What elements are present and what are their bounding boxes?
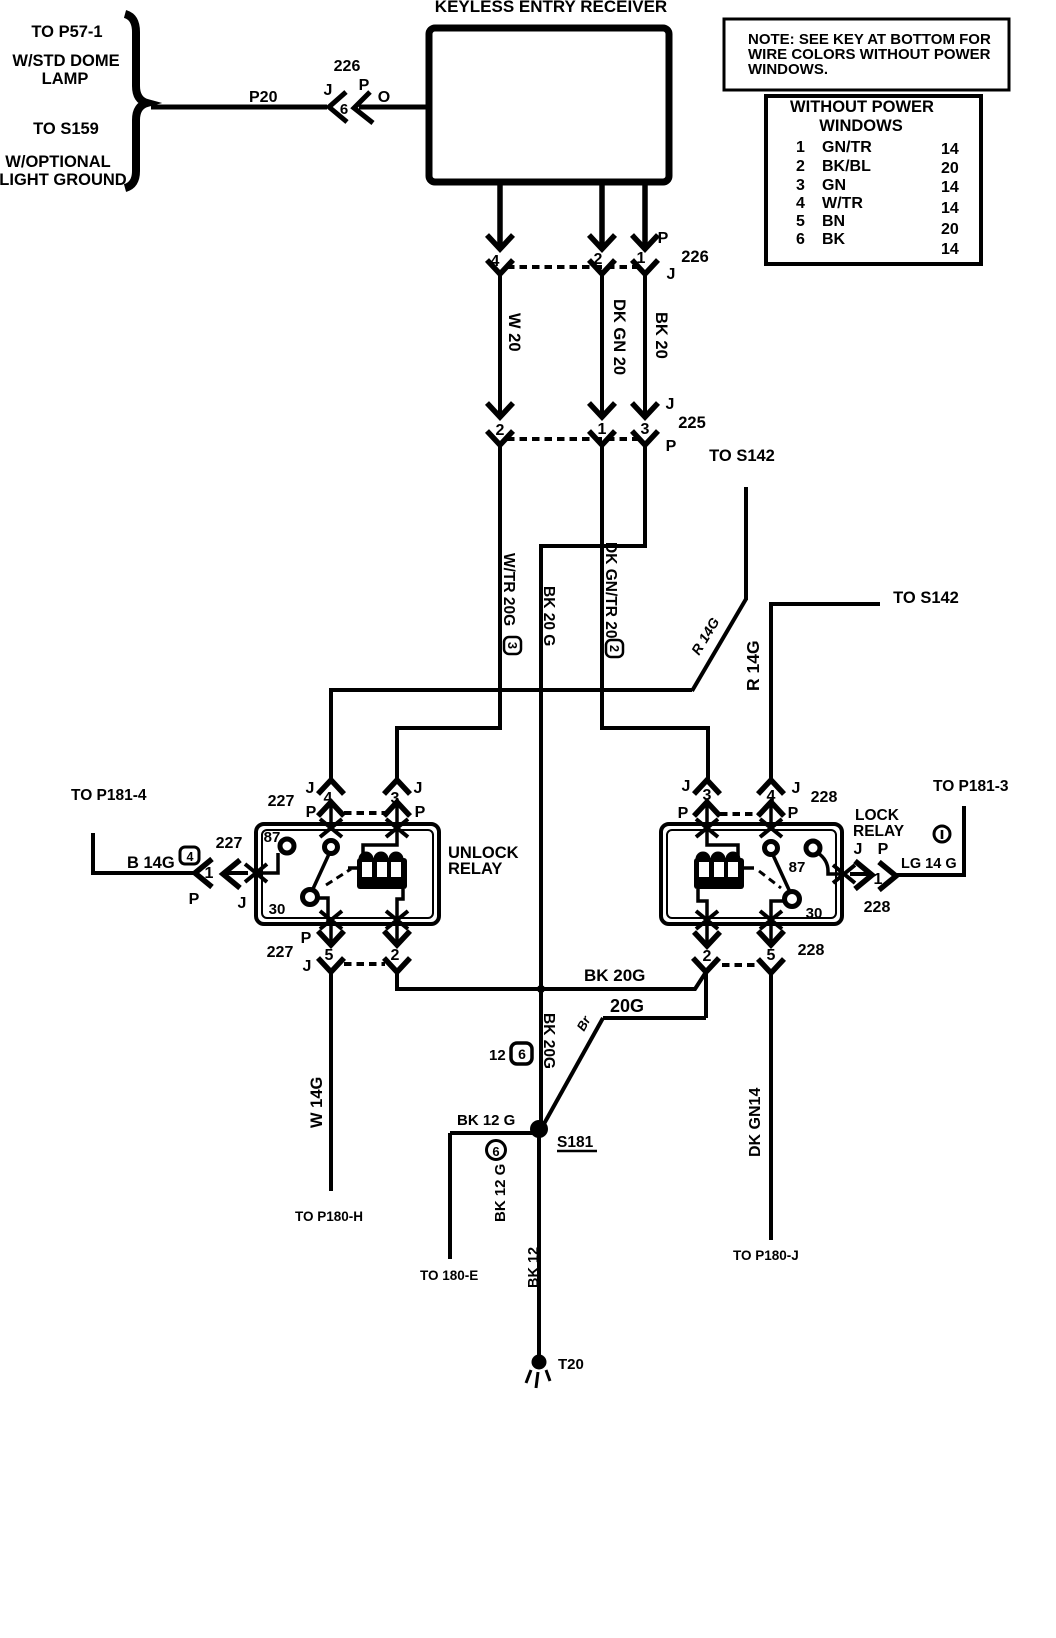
- svg-text:6: 6: [518, 1046, 526, 1062]
- label 226: [681, 248, 709, 266]
- wire BK 20 G (jog and main drop): [541, 445, 645, 1126]
- label DK GN/TR 20: [602, 542, 619, 638]
- label 226 (P20 connector): [334, 58, 361, 75]
- svg-text:12: 12: [489, 1047, 506, 1064]
- svg-text:BK 20: BK 20: [652, 312, 670, 359]
- label W 20: [505, 313, 523, 352]
- label J (unlock pin 5): [303, 958, 312, 975]
- dashed line 225: [507, 437, 638, 441]
- svg-text:228: 228: [864, 899, 891, 916]
- svg-text:5: 5: [767, 947, 776, 964]
- label 20G: [610, 996, 644, 1016]
- svg-text:4: 4: [796, 195, 805, 212]
- label 3 (unlock pin 3): [391, 790, 400, 807]
- svg-text:P: P: [301, 930, 312, 947]
- label 6 (P20 connector): [340, 101, 348, 118]
- unlock contact 87 circle: [280, 839, 294, 853]
- unlock pin 4 P arrow: [318, 802, 344, 830]
- circled 6 (BK 12 G key ref): [487, 1141, 506, 1160]
- svg-text:TO P180-H: TO P180-H: [295, 1209, 363, 1224]
- wire BK 20G horizontal: [397, 972, 706, 989]
- svg-text:J: J: [414, 780, 423, 797]
- dashed line lock bottom: [722, 963, 757, 967]
- svg-text:B 14G: B 14G: [127, 854, 175, 872]
- dashed line unlock bottom: [344, 962, 385, 966]
- svg-text:BK/BL: BK/BL: [822, 158, 871, 175]
- svg-text:DK GN 20: DK GN 20: [610, 299, 628, 375]
- svg-text:BK 12 G: BK 12 G: [457, 1112, 515, 1129]
- wire W/TR 20G: [397, 445, 500, 779]
- lock pin 1 border crossing: [833, 865, 855, 883]
- wire receiver pin 1 stub: [642, 185, 648, 248]
- svg-text:BN: BN: [822, 213, 845, 230]
- unlock pin 3 P arrow: [384, 802, 410, 830]
- connector 225 pin 1 J arrow: [589, 403, 615, 417]
- label 4 (226): [491, 253, 500, 270]
- unlock pin 5 P arrow: [318, 924, 344, 945]
- boxed 3 (W/TR key ref): [504, 637, 521, 654]
- unlock pin 4 border crossing: [320, 819, 342, 837]
- label P (unlock pin 1): [189, 891, 200, 908]
- svg-text:1: 1: [796, 139, 805, 156]
- lock pin 5 J arrow: [758, 959, 784, 973]
- label P (226): [658, 230, 669, 247]
- label 227 (unlock top): [268, 793, 295, 810]
- label W/OPTIONAL LIGHT GROUND: [0, 153, 127, 189]
- label 228 (lock right): [864, 899, 891, 916]
- boxed 2 (DK GN/TR key ref): [606, 640, 623, 657]
- svg-text:LG 14 G: LG 14 G: [901, 856, 957, 872]
- label W 14G: [308, 1077, 326, 1128]
- unlock coil: [357, 852, 407, 890]
- unlock relay box: [256, 824, 439, 924]
- svg-text:DK GN14: DK GN14: [747, 1088, 764, 1157]
- svg-text:30: 30: [806, 905, 823, 922]
- label P (lock pin 4): [788, 805, 799, 822]
- svg-text:TO P180-J: TO P180-J: [733, 1248, 799, 1263]
- svg-text:GN: GN: [822, 177, 846, 194]
- label KEYLESS ENTRY RECEIVER: [435, 0, 667, 16]
- wire receiver pin 2 stub: [599, 185, 605, 248]
- svg-text:BK 20 G: BK 20 G: [540, 586, 557, 646]
- label 1 (226): [637, 250, 646, 267]
- svg-text:W/STD DOME: W/STD DOME: [12, 52, 119, 70]
- svg-text:W 14G: W 14G: [308, 1077, 326, 1128]
- dashed line unlock top: [344, 811, 385, 815]
- svg-text:3: 3: [796, 177, 805, 194]
- label 5 (lock pin 5): [767, 947, 776, 964]
- lock pin 3 P arrow: [694, 802, 720, 830]
- wire BK 12 G horizontal: [450, 1131, 539, 1135]
- svg-text:20: 20: [941, 160, 959, 177]
- svg-text:2: 2: [703, 948, 712, 965]
- svg-text:DK GN/TR 20: DK GN/TR 20: [602, 542, 619, 638]
- lock pin 5 border crossing: [760, 911, 782, 929]
- dashed line lock top: [720, 812, 758, 816]
- label 2 (unlock pin 2): [391, 947, 400, 964]
- lock pin 4 P arrow: [758, 802, 784, 830]
- label 87 (lock): [789, 859, 806, 876]
- label BK 12 G (horizontal): [457, 1112, 515, 1129]
- label 1 (unlock pin 1): [205, 865, 214, 882]
- brace (left): [125, 14, 147, 188]
- wire receiver pin 4 stub: [497, 185, 503, 248]
- wire DK GN14: [769, 973, 773, 1240]
- label O (P20 connector): [378, 89, 390, 106]
- key row 5 BN: [796, 213, 845, 230]
- label 2 (225): [496, 422, 505, 439]
- svg-text:5: 5: [325, 947, 334, 964]
- unlock coil to pin 3 wire: [363, 830, 397, 856]
- lock coil to pin 3 wire: [707, 830, 738, 856]
- label J (P20 connector): [324, 82, 333, 99]
- connector 226 pin 1 J arrow: [632, 260, 658, 274]
- svg-text:6: 6: [340, 101, 348, 118]
- wire B 14G: [93, 833, 194, 873]
- lock pin 5 P arrow: [758, 924, 784, 945]
- wire DK GN/TR 20: [602, 445, 708, 779]
- label 4 (unlock pin 4): [324, 790, 333, 807]
- svg-text:P: P: [666, 438, 677, 455]
- label BK 12 G (vertical): [492, 1164, 509, 1222]
- svg-text:LAMP: LAMP: [42, 70, 89, 88]
- svg-text:W/OPTIONAL: W/OPTIONAL: [5, 153, 110, 171]
- label TO P181-4: [71, 787, 147, 804]
- unlock contact 87 wire: [257, 853, 278, 873]
- svg-text:226: 226: [334, 58, 361, 75]
- connector 226 pin 2 J arrow: [589, 260, 615, 274]
- svg-text:6: 6: [796, 231, 805, 248]
- label R 14G (diagonal, italic): [688, 615, 723, 658]
- label P (lock pin 3): [678, 805, 689, 822]
- unlock pin 5 border crossing: [320, 911, 342, 929]
- label 30 (lock): [806, 905, 823, 922]
- svg-text:TO S142: TO S142: [893, 589, 959, 607]
- lock contact 87 circle: [806, 841, 820, 855]
- label J (226): [667, 266, 676, 283]
- label S181: [557, 1134, 597, 1151]
- wire to S142 diagonal R 14G: [692, 599, 746, 691]
- label 2 (lock pin 2): [703, 948, 712, 965]
- label 4 (lock pin 4): [767, 788, 776, 805]
- label P (unlock pin 5): [301, 930, 312, 947]
- svg-text:87: 87: [789, 859, 806, 876]
- wire DK GN 20: [600, 274, 604, 413]
- key gauge column 14/20/14/14/20/14: [941, 141, 959, 258]
- key row 6 BK: [796, 231, 846, 248]
- note box: [724, 19, 1009, 90]
- label 3 (225): [641, 421, 650, 438]
- lock pin 2 P arrow: [694, 924, 720, 946]
- svg-text:14: 14: [941, 141, 959, 158]
- label Br (diagonal, italic): [574, 1013, 595, 1034]
- label UNLOCK RELAY: [448, 844, 519, 878]
- svg-text:225: 225: [678, 414, 706, 432]
- unlock pin 1 border crossing: [245, 864, 267, 882]
- svg-text:J: J: [792, 780, 801, 797]
- label BK 20G (horizontal): [584, 966, 645, 985]
- lock pin 4 J arrow: [758, 780, 784, 794]
- svg-text:WITHOUT POWER: WITHOUT POWER: [790, 98, 934, 116]
- unlock coil to pin 2 wire: [397, 889, 403, 924]
- label P (225): [666, 438, 677, 455]
- svg-text:87: 87: [264, 829, 281, 846]
- svg-text:J: J: [854, 841, 863, 858]
- label TO P180-H: [295, 1209, 363, 1224]
- connector 225 pin 1 P arrow: [589, 431, 615, 445]
- label 3 (lock pin 3): [703, 787, 712, 804]
- lock switch contact circle: [765, 842, 778, 855]
- keyless entry receiver box: [429, 28, 669, 182]
- lock relay box: [661, 824, 842, 924]
- svg-text:S181: S181: [557, 1134, 594, 1151]
- label P (unlock pin 3): [415, 804, 426, 821]
- svg-text:2: 2: [796, 158, 805, 175]
- label BK 20G (vertical): [540, 1013, 557, 1069]
- svg-text:J: J: [682, 778, 691, 795]
- wire BK 12 to T20: [537, 1133, 541, 1356]
- label 5 (unlock pin 5): [325, 947, 334, 964]
- svg-text:TO P181-3: TO P181-3: [933, 778, 1009, 795]
- label J (unlock pin 4): [306, 780, 315, 797]
- dashed line 226: [507, 265, 638, 269]
- svg-text:P: P: [189, 891, 200, 908]
- svg-text:J: J: [666, 396, 675, 413]
- label P (P20 connector): [359, 77, 370, 94]
- svg-text:BK 12 G: BK 12 G: [492, 1164, 509, 1222]
- splice S181: [530, 1120, 548, 1138]
- label 12 (BK 20G circuit): [489, 1047, 506, 1064]
- svg-text:TO P181-4: TO P181-4: [71, 787, 147, 804]
- label BK 20: [652, 312, 670, 359]
- svg-text:2: 2: [391, 947, 400, 964]
- svg-text:3: 3: [641, 421, 650, 438]
- unlock switch armature: [312, 854, 329, 891]
- label 87 (unlock): [264, 829, 281, 846]
- svg-text:3: 3: [505, 642, 519, 649]
- label BK 12: [526, 1247, 542, 1288]
- svg-text:1: 1: [598, 421, 607, 438]
- svg-text:P20: P20: [249, 89, 278, 106]
- connector P20 P chevron: [354, 92, 373, 123]
- svg-text:BK: BK: [822, 231, 846, 248]
- svg-text:KEYLESS ENTRY RECEIVER: KEYLESS ENTRY RECEIVER: [435, 0, 667, 16]
- svg-text:W 20: W 20: [505, 313, 523, 352]
- label 227 (unlock bottom): [267, 944, 294, 961]
- svg-text:W/TR 20G: W/TR 20G: [500, 553, 517, 626]
- unlock pin 4 J arrow: [318, 780, 344, 794]
- connector 227 boxed 4 key ref: [180, 847, 199, 864]
- unlock pin 3 J arrow: [384, 780, 410, 794]
- label TO P57-1: [31, 23, 102, 41]
- lock coil to pin 2 wire: [698, 889, 707, 924]
- wire to 180-E: [448, 1133, 452, 1259]
- svg-text:BK 12: BK 12: [526, 1247, 542, 1288]
- label DK GN 20: [610, 299, 628, 375]
- label 2 (226): [594, 251, 603, 268]
- lock pin 4 border crossing: [760, 819, 782, 837]
- svg-text:J: J: [667, 266, 676, 283]
- label T20: [558, 1356, 584, 1373]
- lock pin 3 border crossing: [696, 819, 718, 837]
- lock switch armature: [773, 855, 790, 892]
- svg-text:2: 2: [607, 645, 621, 652]
- label J (lock pin 1): [854, 841, 863, 858]
- key box WITHOUT POWER WINDOWS: [766, 96, 981, 264]
- svg-text:LOCK: LOCK: [855, 807, 900, 824]
- label P (unlock pin 4): [306, 804, 317, 821]
- svg-text:P: P: [658, 230, 669, 247]
- svg-text:2: 2: [496, 422, 505, 439]
- svg-text:O: O: [378, 89, 390, 106]
- connector 226 pin 4 J arrow: [487, 260, 513, 274]
- svg-text:BK 20G: BK 20G: [584, 966, 645, 985]
- label J (unlock pin 3): [414, 780, 423, 797]
- unlock pin 2 J arrow: [384, 958, 410, 972]
- label J (unlock pin 1): [238, 895, 247, 912]
- label W/TR 20G: [500, 553, 517, 626]
- lock pin 2 J arrow: [693, 958, 719, 972]
- svg-text:14: 14: [941, 241, 959, 258]
- svg-text:P: P: [415, 804, 426, 821]
- label 228 (lock bottom): [798, 942, 825, 959]
- svg-text:5: 5: [796, 213, 805, 230]
- label TO S159: [33, 120, 99, 138]
- key row 3 GN: [796, 177, 846, 194]
- label R 14G (vertical): [743, 640, 763, 691]
- wire horizontal bus to unlock pin 4: [331, 690, 692, 779]
- svg-text:227: 227: [267, 944, 294, 961]
- svg-text:P: P: [678, 805, 689, 822]
- unlock pin 1 P arrow: [195, 859, 212, 887]
- label B 14G: [127, 854, 175, 872]
- svg-text:227: 227: [268, 793, 295, 810]
- connector 226 pin 4 P arrow: [487, 235, 513, 249]
- label TO S142 (second): [893, 589, 959, 607]
- label 225: [678, 414, 706, 432]
- lock coil: [694, 852, 744, 890]
- unlock switch contact circle: [325, 841, 338, 854]
- svg-text:30: 30: [269, 901, 286, 918]
- label J (lock pin 3): [682, 778, 691, 795]
- connector 226 pin 1 P arrow: [632, 235, 658, 249]
- svg-text:J: J: [306, 780, 315, 797]
- connector 226 pin 2 P arrow: [589, 235, 615, 249]
- connector 225 pin 2 J arrow: [487, 403, 513, 417]
- lock pin 1 J arrow: [850, 861, 872, 889]
- svg-text:LIGHT GROUND: LIGHT GROUND: [0, 171, 127, 189]
- wire BK 20: [643, 274, 647, 413]
- svg-text:T20: T20: [558, 1356, 584, 1373]
- wire LG 14 G to P181-3: [896, 806, 964, 875]
- wire 20G horizontal: [603, 1016, 706, 1020]
- svg-text:BK 20G: BK 20G: [540, 1013, 557, 1069]
- label LOCK RELAY: [853, 807, 905, 840]
- label P (lock pin 1): [878, 841, 889, 858]
- svg-text:P: P: [788, 805, 799, 822]
- unlock coil left stub: [348, 866, 357, 870]
- wire W 20: [498, 274, 502, 413]
- svg-text:TO P57-1: TO P57-1: [31, 23, 102, 41]
- svg-text:20: 20: [941, 221, 959, 238]
- svg-text:226: 226: [681, 248, 709, 266]
- unlock pin 1 J arrow: [223, 860, 248, 888]
- svg-text:J: J: [324, 82, 333, 99]
- key row 4 W/TR: [796, 195, 863, 212]
- unlock pin 2 border crossing: [386, 911, 408, 929]
- connector 225 pin 3 P arrow: [632, 431, 658, 445]
- unlock mechanical link (dashed): [326, 869, 351, 885]
- wire to S142 (first, vertical): [744, 487, 748, 600]
- unlock switch pivot circle: [303, 890, 318, 905]
- svg-text:6: 6: [492, 1144, 499, 1159]
- label LG 14 G: [901, 856, 957, 872]
- label TO S142 (first): [709, 447, 775, 465]
- lock mechanical link (dashed): [759, 871, 781, 888]
- svg-text:RELAY: RELAY: [853, 823, 905, 840]
- svg-text:TO S159: TO S159: [33, 120, 99, 138]
- wire W 14G: [329, 972, 333, 1191]
- unlock pin 3 border crossing: [386, 819, 408, 837]
- svg-text:P: P: [306, 804, 317, 821]
- ground T20: [526, 1355, 550, 1389]
- svg-text:14: 14: [941, 179, 959, 196]
- connector 225 pin 3 J arrow: [632, 403, 658, 417]
- svg-text:R 14G: R 14G: [743, 640, 763, 691]
- svg-text:TO S142: TO S142: [709, 447, 775, 465]
- label TO 180-E: [420, 1268, 478, 1283]
- junction dot BK 20G: [537, 985, 545, 993]
- connector 225 pin 2 P arrow: [487, 431, 513, 445]
- svg-text:P: P: [878, 841, 889, 858]
- svg-text:1: 1: [205, 865, 214, 882]
- lock contact to pin 1 wire: [818, 853, 843, 874]
- svg-text:20G: 20G: [610, 996, 644, 1016]
- label J (225): [666, 396, 675, 413]
- label P20: [249, 89, 278, 106]
- label TO P180-J: [733, 1248, 799, 1263]
- svg-text:WINDOWS.: WINDOWS.: [748, 61, 828, 78]
- label 30 (unlock): [269, 901, 286, 918]
- label J (lock pin 4): [792, 780, 801, 797]
- label BK 20 G: [540, 586, 557, 646]
- svg-text:W/TR: W/TR: [822, 195, 863, 212]
- svg-text:4: 4: [187, 850, 194, 864]
- lock coil right stub: [744, 866, 754, 870]
- lock pivot to pin 5 wire: [771, 901, 785, 924]
- label DK GN14: [747, 1088, 764, 1157]
- unlock pin 5 J arrow: [318, 958, 344, 972]
- svg-text:TO 180-E: TO 180-E: [420, 1268, 478, 1283]
- lock switch pivot circle: [785, 892, 800, 907]
- svg-text:J: J: [303, 958, 312, 975]
- wire diagonal to S181: [540, 1018, 603, 1131]
- lock pin 2 border crossing: [696, 911, 718, 929]
- svg-text:14: 14: [941, 200, 959, 217]
- svg-text:GN/TR: GN/TR: [822, 139, 872, 156]
- label 1 (lock pin 1): [874, 871, 883, 888]
- key row 1 GN/TR: [796, 139, 872, 156]
- label 1 (225): [598, 421, 607, 438]
- svg-text:WINDOWS: WINDOWS: [819, 117, 902, 135]
- key row 2 BK/BL: [796, 158, 871, 175]
- label 228 (lock top): [811, 789, 838, 806]
- boxed 6 (BK 20G key ref): [511, 1043, 532, 1064]
- svg-text:227: 227: [216, 835, 243, 852]
- lock pin 1 P arrow: [879, 862, 896, 890]
- connector P20 J chevron: [329, 92, 347, 122]
- label 227 (unlock left): [216, 835, 243, 852]
